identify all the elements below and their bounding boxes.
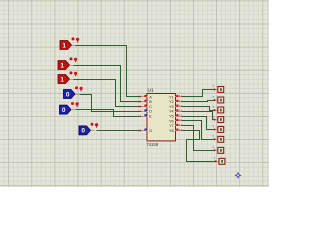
logic state input 0 (G) — [79, 126, 91, 135]
logic probe 4 — [214, 119, 218, 121]
logic probe 1 — [214, 89, 218, 91]
pin Y2 (right, pin 12) — [175, 101, 182, 103]
pin D (left, pin 13) — [142, 111, 148, 113]
logic state input 0 (D) — [64, 90, 76, 99]
svg-text:Y2: Y2 — [169, 100, 174, 104]
wire LS B to pin B — [74, 66, 142, 102]
mouse cursor 4-point crosshair — [234, 172, 241, 179]
svg-text:74158: 74158 — [146, 142, 158, 147]
svg-text:E: E — [149, 115, 152, 119]
pin B (left, pin 11) — [142, 101, 148, 103]
pin Y5 (right, pin 15) — [175, 116, 182, 118]
svg-text:13: 13 — [179, 104, 183, 108]
pin Y6 (right, pin 16) — [175, 120, 182, 122]
svg-text:1: 1 — [60, 62, 64, 69]
logic probe 7 — [214, 150, 218, 152]
pin A (left, pin 10) — [142, 96, 148, 98]
svg-text:0: 0 — [81, 128, 85, 135]
wire Y2 to probe 2 — [182, 101, 215, 102]
logic state input 0 (E) — [60, 105, 72, 114]
svg-text:10: 10 — [138, 95, 142, 99]
wire Y6 to probe 6 — [182, 121, 215, 140]
logic probe 6 — [214, 139, 218, 141]
svg-text:U1: U1 — [148, 87, 154, 93]
pin Y1 (right, pin 11) — [175, 96, 182, 98]
grid minor lines — [0, 0, 269, 187]
svg-text:Y7: Y7 — [169, 124, 174, 128]
pin C (left, pin 12) — [142, 106, 148, 108]
svg-text:14: 14 — [138, 114, 142, 118]
IC U1 74158 body — [147, 94, 176, 141]
svg-text:Y5: Y5 — [169, 115, 174, 119]
logic probe 5 — [214, 129, 218, 131]
wire Y4 to probe 4 — [182, 112, 215, 120]
svg-text:Y6: Y6 — [169, 119, 174, 123]
svg-text:1: 1 — [62, 42, 66, 49]
logic state input 1 (A) — [60, 41, 72, 50]
svg-text:11: 11 — [138, 100, 141, 104]
svg-text:C: C — [149, 105, 152, 109]
svg-text:0: 0 — [66, 91, 70, 98]
logic state input 1 (B) — [58, 61, 70, 70]
svg-text:12: 12 — [138, 104, 142, 108]
wire LS A to pin A — [76, 46, 142, 97]
svg-text:D: D — [149, 110, 152, 114]
pin E (left, pin 14) — [142, 116, 148, 118]
wire Y5 to probe 5 — [182, 117, 215, 130]
pin G (left, pin 15) — [142, 130, 148, 132]
wire Y3 to probe 3 — [182, 107, 215, 111]
logic probe 3 — [214, 110, 218, 112]
svg-text:Y4: Y4 — [169, 110, 174, 114]
pin Y8 (right, pin 18) — [175, 130, 182, 132]
grid major lines — [0, 0, 269, 187]
wire Y7 to probe 7 — [182, 126, 215, 151]
svg-text:A: A — [149, 95, 152, 99]
wire LS G to pin G — [97, 130, 142, 132]
pin Y3 (right, pin 13) — [175, 106, 182, 108]
wire LS E to pin E — [76, 110, 142, 117]
wire LS D to pin D — [80, 95, 142, 112]
wire LS C to pin C — [74, 80, 142, 107]
svg-text:1: 1 — [60, 76, 64, 83]
svg-text:Y8: Y8 — [169, 129, 174, 133]
svg-text:15: 15 — [138, 128, 142, 132]
svg-text:0: 0 — [62, 107, 66, 114]
logic state input 1 (C) — [58, 75, 70, 84]
svg-text:13: 13 — [138, 109, 142, 113]
svg-text:Y3: Y3 — [169, 105, 174, 109]
svg-text:B: B — [149, 100, 152, 104]
logic probe 2 — [214, 100, 218, 102]
svg-text:18: 18 — [179, 128, 183, 132]
logic probe 8 — [215, 161, 219, 163]
svg-text:G: G — [149, 129, 152, 133]
svg-text:Y1: Y1 — [169, 95, 174, 99]
wire Y1 to probe 1 — [182, 90, 215, 97]
pin Y7 (right, pin 17) — [175, 125, 182, 127]
wire Y8 to probe 8 (detour route) — [182, 131, 216, 162]
pin Y4 (right, pin 14) — [175, 111, 182, 113]
